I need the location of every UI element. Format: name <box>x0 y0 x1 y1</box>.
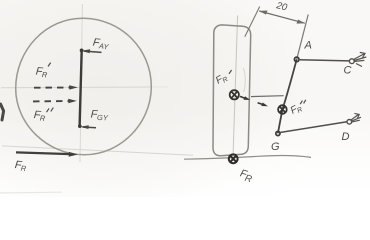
dashed force arrow F_R'' <box>33 99 77 103</box>
force line A-G (dark vertical line) <box>80 50 82 126</box>
node at top of force line <box>80 49 84 53</box>
svg-text:AY: AY <box>97 41 109 51</box>
label F_R' (right diagram) <box>214 72 229 88</box>
left diagram: faint horizontal centerline <box>1 86 150 89</box>
spindle line from tire to kingpin <box>251 95 284 98</box>
force scribble arrow at D <box>351 113 361 122</box>
wheel circle (left diagram) <box>16 18 152 155</box>
dashed force arrow F_R' <box>34 85 78 89</box>
label F_R (left) <box>14 159 28 173</box>
dimension line with arrowheads <box>259 11 305 24</box>
label F_GY <box>90 109 109 123</box>
svg-text:D: D <box>342 131 350 143</box>
faint crease bottom-left <box>0 191 62 194</box>
point symbol F_R (contact patch, bold circle-cross) <box>229 154 238 163</box>
svg-text:GY: GY <box>97 113 109 123</box>
dimension text 20 <box>274 0 289 14</box>
svg-text:R: R <box>39 114 46 123</box>
label F_R'' <box>33 109 46 123</box>
dashed arrow from F_R' toward F_R'' : segment 1 <box>240 96 250 100</box>
joint eye at D <box>347 120 352 125</box>
node A <box>294 57 299 62</box>
faint scribble arcs right of centerline <box>244 68 246 92</box>
svg-text:A: A <box>304 40 312 52</box>
dimension extension line (left, from tire shoulder) <box>245 7 260 37</box>
label F_R (right diagram) <box>238 167 254 185</box>
node at bottom of force line <box>78 124 82 128</box>
left diagram: faint vertical centerline <box>80 4 82 162</box>
force arrow F_GY (points left, tip at bottom of line) <box>80 125 96 129</box>
left diagram: faint ground line under circle <box>2 146 193 155</box>
svg-text:R: R <box>41 70 48 79</box>
point symbol F_R' (circle-cross) <box>230 90 239 99</box>
tire centerline (faint) <box>233 16 238 158</box>
svg-text:G: G <box>271 141 280 153</box>
ground line (right) <box>184 156 311 160</box>
svg-text:R: R <box>20 164 27 174</box>
svg-text:20: 20 <box>274 0 289 14</box>
kingpin axis A to G <box>278 59 297 133</box>
label F_R'' (right diagram) <box>289 102 304 118</box>
joint eye at C <box>349 59 354 64</box>
dashed arrow segment 2 <box>258 103 268 107</box>
label F_AY <box>92 37 110 52</box>
point symbol F_R'' (circle-cross on axis) <box>278 105 287 114</box>
kingpin axis extension above A (to dimension) <box>297 15 309 60</box>
svg-text:C: C <box>344 65 352 77</box>
node G <box>276 131 280 135</box>
tie rod A to C <box>299 60 349 61</box>
force scribble arrow at C <box>354 52 367 66</box>
tire outline (rounded rectangle) <box>213 25 251 156</box>
force arrow F_AY (points left, tip at top of line) <box>81 49 101 53</box>
force arrow F_R (solid, bottom left) <box>16 152 78 157</box>
label F_R' <box>35 66 48 80</box>
track rod G to D <box>280 122 347 133</box>
ink smudge at left edge <box>1 104 4 120</box>
